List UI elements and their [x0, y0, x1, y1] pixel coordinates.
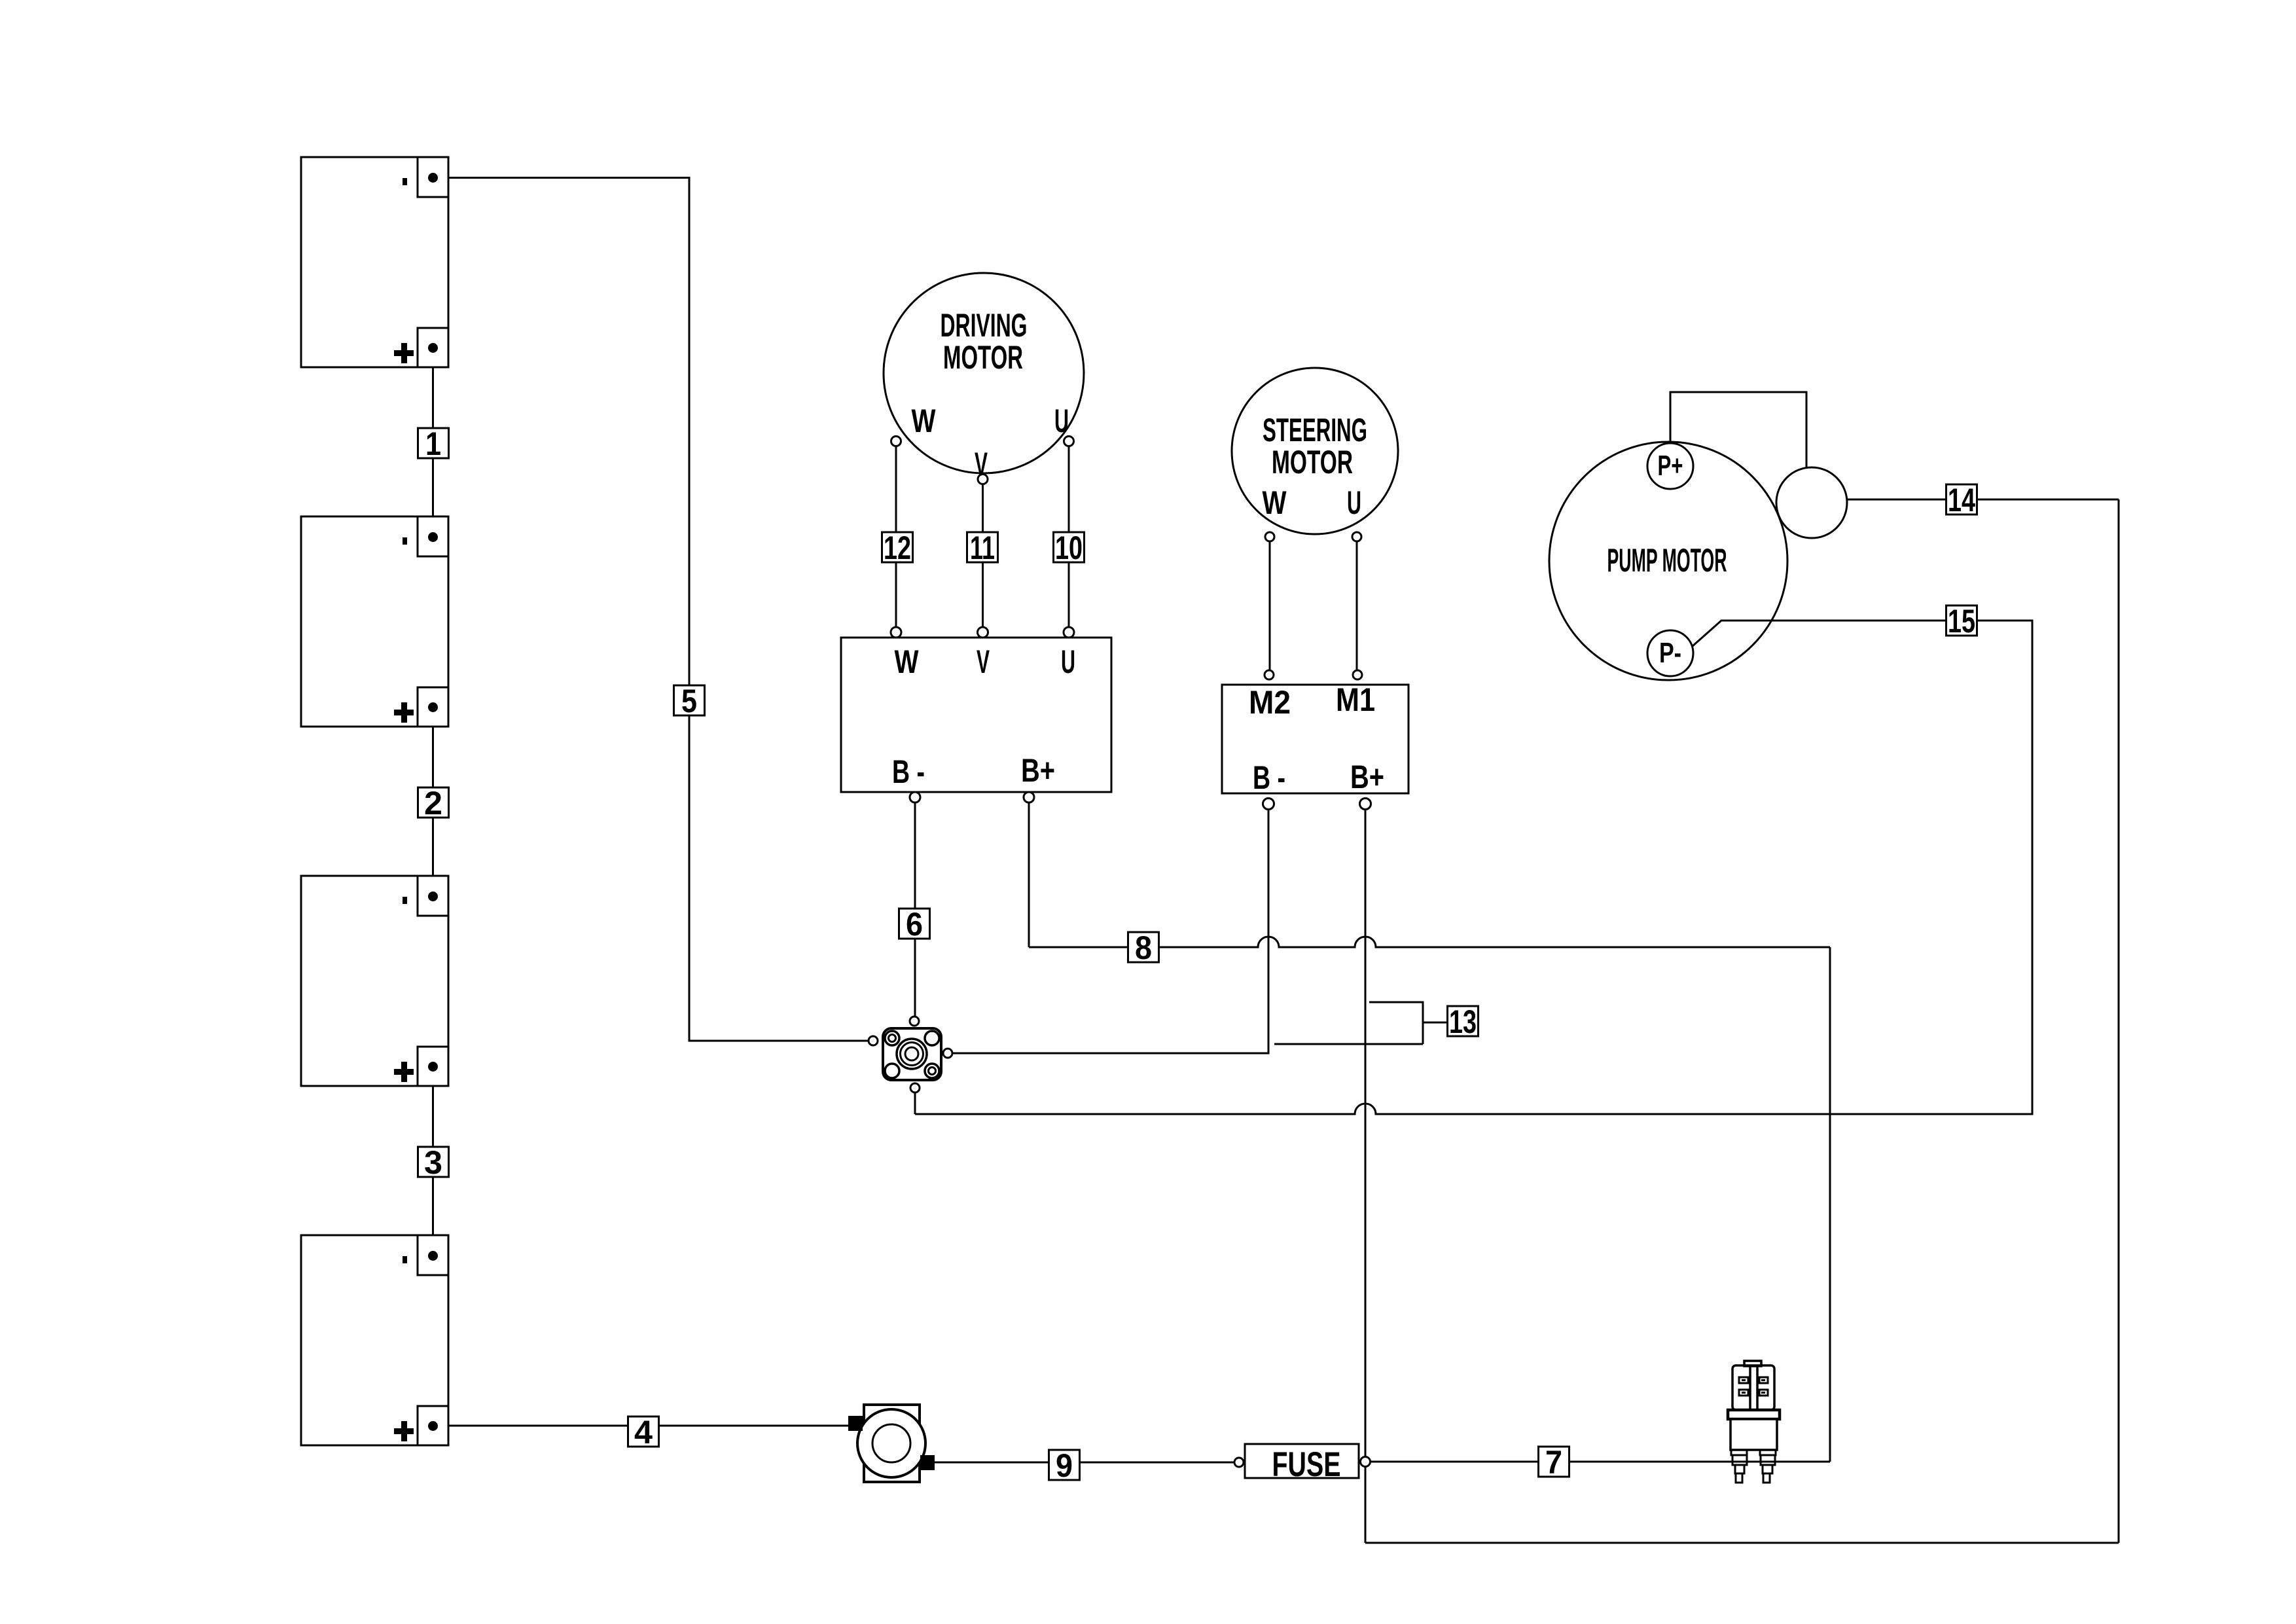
svg-text:B+: B+ [1350, 759, 1384, 795]
svg-text:4: 4 [634, 1414, 653, 1451]
svg-text:15: 15 [1948, 603, 1975, 640]
svg-text:11: 11 [970, 530, 995, 566]
svg-text:W: W [1263, 484, 1287, 521]
svg-text:MOTOR: MOTOR [1272, 444, 1353, 480]
svg-text:B -: B - [1253, 759, 1285, 796]
svg-text:3: 3 [424, 1144, 442, 1181]
svg-text:8: 8 [1135, 929, 1152, 966]
svg-text:1: 1 [425, 425, 441, 462]
svg-text:6: 6 [906, 906, 923, 943]
svg-text:B -: B - [892, 753, 925, 790]
svg-text:U: U [1061, 643, 1075, 680]
svg-text:U: U [1054, 403, 1069, 439]
svg-text:M2: M2 [1249, 684, 1291, 721]
svg-text:B+: B+ [1021, 752, 1055, 789]
svg-text:5: 5 [681, 683, 697, 719]
svg-text:DRIVING: DRIVING [941, 307, 1028, 344]
svg-text:W: W [895, 643, 920, 680]
svg-text:W: W [912, 403, 937, 439]
svg-text:7: 7 [1545, 1444, 1562, 1481]
svg-text:U: U [1347, 484, 1361, 521]
svg-text:13: 13 [1449, 1003, 1477, 1040]
svg-text:9: 9 [1056, 1447, 1073, 1484]
svg-text:STEERING: STEERING [1263, 412, 1367, 448]
svg-text:P-: P- [1659, 637, 1681, 669]
svg-text:M1: M1 [1336, 681, 1375, 718]
svg-text:P+: P+ [1658, 450, 1683, 482]
svg-text:PUMP MOTOR: PUMP MOTOR [1607, 542, 1727, 579]
svg-text:V: V [977, 643, 990, 680]
svg-text:MOTOR: MOTOR [943, 339, 1023, 376]
svg-text:10: 10 [1055, 530, 1083, 566]
svg-text:2: 2 [424, 785, 442, 821]
svg-text:FUSE: FUSE [1272, 1445, 1341, 1484]
svg-text:14: 14 [1948, 482, 1975, 518]
svg-text:12: 12 [884, 530, 911, 566]
